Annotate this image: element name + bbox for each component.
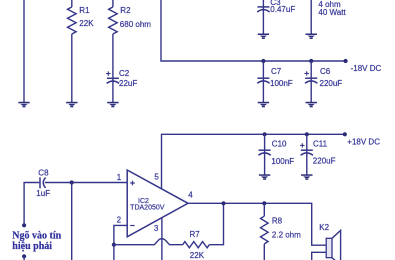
node input terminal upper <box>22 223 26 227</box>
op-amp U IC2 triangle <box>127 170 188 237</box>
svg-text:C6: C6 <box>320 67 331 76</box>
svg-text:2.2 ohm: 2.2 ohm <box>272 231 301 240</box>
svg-text:C2: C2 <box>119 69 130 78</box>
node input terminal lower <box>22 254 26 258</box>
wire <box>71 34 73 102</box>
svg-text:R2: R2 <box>120 6 131 15</box>
capacitor C2 <box>107 78 119 83</box>
node output/R7 junction <box>221 201 225 205</box>
ground <box>258 34 269 40</box>
node C10 junction <box>263 132 267 136</box>
resistor R2 <box>112 0 114 7</box>
ground <box>18 102 29 108</box>
node +18V end <box>343 132 347 136</box>
ground <box>259 174 270 180</box>
svg-text:5: 5 <box>154 172 159 181</box>
svg-text:C7: C7 <box>271 67 282 76</box>
svg-text:+18V DC: +18V DC <box>347 138 380 147</box>
wire down from C8 junction <box>71 183 73 260</box>
ground <box>66 102 77 108</box>
wire speaker K1 to ground <box>310 0 312 34</box>
node C7 junction <box>261 59 265 63</box>
ground <box>107 102 118 108</box>
speaker K2 <box>312 252 327 260</box>
svg-text:4: 4 <box>188 190 193 199</box>
ground <box>258 102 269 108</box>
wire down from feedback junction <box>113 245 115 260</box>
wire -18V rail <box>161 0 346 61</box>
capacitor C11 <box>306 134 308 174</box>
ground <box>301 174 312 180</box>
node C6 junction <box>309 59 313 63</box>
svg-text:680 ohm: 680 ohm <box>120 20 151 29</box>
ground <box>306 34 317 40</box>
svg-text:22uF: 22uF <box>119 79 137 88</box>
wire pin3 down <box>161 218 163 260</box>
node output/R8 junction <box>262 201 266 205</box>
capacitor C10 <box>264 134 266 174</box>
wire R8 down <box>263 244 265 260</box>
svg-text:C10: C10 <box>272 140 287 149</box>
svg-text:22K: 22K <box>79 19 94 28</box>
svg-text:220uF: 220uF <box>320 79 343 88</box>
svg-text:2: 2 <box>117 216 122 225</box>
resistor R1 <box>71 0 73 7</box>
svg-text:100nF: 100nF <box>270 79 293 88</box>
svg-text:hiệu phải: hiệu phải <box>12 241 52 252</box>
capacitor C7 <box>262 61 264 102</box>
wire stub bottom <box>23 256 25 260</box>
resistor R8 <box>263 203 265 216</box>
capacitor C3 <box>262 0 264 34</box>
svg-text:22K: 22K <box>190 251 205 260</box>
svg-text:R7: R7 <box>190 230 201 239</box>
svg-text:0.47uF: 0.47uF <box>270 5 295 14</box>
svg-text:3: 3 <box>154 224 159 233</box>
svg-text:K2: K2 <box>319 223 329 232</box>
svg-text:1: 1 <box>117 173 122 182</box>
node C8 out junction <box>70 180 74 184</box>
wire <box>45 182 128 184</box>
svg-text:1uF: 1uF <box>36 189 50 198</box>
wire R7 to output <box>209 203 223 244</box>
node feedback junction <box>112 243 116 247</box>
resistor R7 <box>183 242 210 248</box>
svg-text:40 Watt: 40 Watt <box>318 8 346 17</box>
wire output rail <box>188 203 327 245</box>
wire left vertical to ground top-left <box>23 0 25 102</box>
svg-text:C8: C8 <box>38 169 49 178</box>
svg-text:R1: R1 <box>79 6 90 15</box>
wire input left <box>24 183 39 226</box>
svg-text:C11: C11 <box>313 140 328 149</box>
wire +18V rail <box>162 134 345 189</box>
wire pin2 to feedback node <box>114 225 128 244</box>
ground <box>306 102 317 108</box>
svg-text:TDA2050V: TDA2050V <box>130 205 165 212</box>
capacitor C6 <box>310 61 312 102</box>
svg-text:100nF: 100nF <box>271 157 294 166</box>
minus input symbol <box>130 225 134 227</box>
svg-text:-18V DC: -18V DC <box>351 64 382 73</box>
wire feedback with hop over pin3 <box>114 239 183 245</box>
wire <box>112 34 114 102</box>
capacitor C8 <box>40 177 46 188</box>
svg-text:220uF: 220uF <box>313 157 336 166</box>
plus input symbol <box>130 181 135 186</box>
node -18V end <box>344 59 348 63</box>
node C11 junction <box>305 132 309 136</box>
svg-text:R8: R8 <box>272 217 283 226</box>
